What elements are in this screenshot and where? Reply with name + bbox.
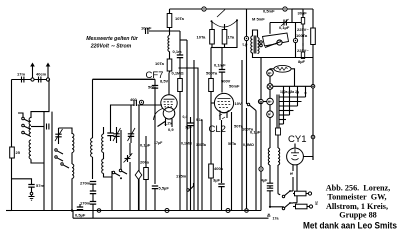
svg-text:4µF: 4µF: [261, 179, 268, 183]
lamp oval: [274, 65, 291, 72]
wire x92 drop: [92, 79, 94, 138]
svg-text:M 5mF: M 5mF: [252, 17, 265, 22]
label 9,1a texture: [196, 118, 203, 122]
dropper rung 1: [279, 96, 306, 98]
switch mains 2: [282, 202, 291, 210]
label row 50Ta: [228, 142, 237, 146]
label 10V: [235, 101, 242, 106]
capacitor C bf: [107, 127, 113, 141]
wire CY1 cathode down: [292, 165, 294, 191]
resistor R-ant 25: [10, 147, 21, 158]
svg-text:57m: 57m: [36, 183, 44, 188]
svg-text:10Ta: 10Ta: [155, 61, 165, 66]
plug prong 1: [308, 192, 311, 195]
wire x198 vertical: [179, 68, 199, 211]
label 0,1mF: [214, 63, 226, 68]
svg-text:50m: 50m: [148, 85, 156, 90]
wire x187 vertical: [180, 40, 187, 211]
svg-text:0,1MΩ: 0,1MΩ: [181, 142, 192, 146]
switch mains 1: [282, 190, 291, 198]
svg-text:10Ta: 10Ta: [175, 16, 185, 21]
capacitor C 30uF: [292, 9, 305, 28]
wire CY1 anode right: [303, 157, 313, 161]
wire x211 to bus: [210, 178, 212, 211]
node meas top1: [202, 7, 206, 11]
wire x261 lower: [260, 102, 262, 168]
wire main bus left end: [6, 210, 12, 212]
resistor R anode CF7: [178, 79, 183, 92]
svg-text:200a: 200a: [140, 160, 150, 165]
svg-text:10V: 10V: [235, 101, 242, 106]
switch selector arcs: [211, 10, 239, 28]
resistor R 100Ta: [311, 28, 316, 58]
wire top bus: [170, 8, 314, 10]
tube heater circle Hb1: [267, 70, 274, 77]
capacitor C grid series: [130, 97, 137, 106]
wire CL2 cathode pins: [220, 112, 227, 120]
wire Hf chain: [269, 105, 271, 111]
svg-text:50Ta: 50Ta: [228, 142, 237, 146]
wire y57.5 horizontal: [261, 57, 313, 59]
coil L3: [91, 138, 93, 157]
wire selector bottom: [211, 21, 237, 48]
coil choke 2: [278, 148, 280, 195]
wire x180 from junction: [149, 31, 180, 55]
node antenna terminal 1: [31, 78, 34, 81]
wire cap to coil: [31, 126, 44, 128]
wire x194 vertical: [193, 60, 195, 211]
tube CF7 envelope: [161, 95, 177, 119]
transformer T1 secondary: [258, 38, 260, 54]
wire c-chain to rail2: [92, 204, 94, 218]
svg-text:0,9: 0,9: [168, 127, 174, 132]
wire CF7 anode pin: [168, 73, 170, 95]
svg-text:0,5MΩ: 0,5MΩ: [243, 143, 254, 147]
label 500V: [221, 79, 231, 84]
svg-text:0,1µF: 0,1µF: [140, 143, 151, 148]
wire x292 vertical: [291, 9, 293, 23]
svg-text:170m: 170m: [80, 201, 91, 206]
wire T1 bottom: [253, 53, 262, 58]
wire x261 drop: [260, 58, 262, 100]
variable capacitor C-tune: [124, 153, 133, 162]
label 8,5V: [160, 79, 169, 84]
wire antenna input horizontal: [12, 79, 50, 81]
wire coil L2 to bus: [71, 178, 73, 210]
wire T1 top: [253, 30, 258, 37]
wire Hb2 chain: [269, 89, 271, 98]
wire coil L2 mid: [71, 153, 73, 165]
wire lamp leads: [270, 69, 295, 86]
capacitor C 3uF: [213, 178, 225, 211]
tube CY1 internals: [291, 149, 299, 160]
node meas left of Hb2: [259, 99, 267, 103]
antenna symbol 2: [46, 63, 51, 78]
svg-text:100Ta: 100Ta: [296, 33, 308, 38]
capacitor C 5,5uF: [152, 186, 170, 211]
wire x180 to bus: [179, 92, 181, 211]
svg-text:CF7: CF7: [146, 70, 164, 81]
label 50mF: [229, 84, 240, 89]
antenna symbol 1: [30, 63, 35, 78]
wire x256 vertical: [255, 115, 257, 211]
wire x211 lower: [210, 92, 212, 165]
node meas grid: [139, 100, 143, 104]
coil L2 right column: [72, 134, 74, 153]
capacitor C 8uF: [298, 28, 306, 64]
label 0,4 texture: [183, 115, 188, 119]
label 30uF: [298, 11, 308, 16]
switch contact SA2: [22, 124, 30, 129]
capacitor C 7uF: [185, 117, 194, 211]
label row 17uF: [154, 141, 163, 145]
svg-text:220Volt ∼ Strom: 220Volt ∼ Strom: [90, 44, 132, 50]
svg-text:25: 25: [16, 150, 21, 155]
svg-text:Met dank aan Leo Smits: Met dank aan Leo Smits: [303, 221, 397, 232]
dropper rung 5: [279, 114, 290, 116]
wire bandfilter top: [111, 105, 135, 127]
wire Hf down to coil: [269, 118, 271, 149]
wire right top corner: [312, 9, 314, 28]
coil L4b: [102, 159, 112, 177]
capacitor C 0,1m: [173, 49, 184, 58]
svg-text:8µF: 8µF: [298, 59, 306, 64]
tube CL2 pin marks: [219, 114, 225, 119]
dropper tap arrows: [282, 91, 307, 93]
label 0,9V: [168, 127, 174, 132]
label CF7: [146, 70, 164, 81]
wire chain2: [169, 52, 171, 60]
svg-text:270m: 270m: [80, 181, 91, 186]
svg-text:9,1a: 9,1a: [196, 118, 203, 122]
svg-text:5,5µF: 5,5µF: [159, 186, 170, 191]
label 0,1MOhm: [172, 71, 185, 76]
wire mid vertical x44: [43, 112, 45, 211]
dropper rung 2: [279, 101, 302, 103]
svg-text:1,2V: 1,2V: [164, 121, 173, 126]
trimmer C-ant: [55, 128, 63, 144]
label 225V top: [297, 27, 309, 32]
node meas CL2r: [258, 99, 262, 103]
jack diamond: [135, 171, 142, 211]
svg-text:0,1µF: 0,1µF: [279, 25, 290, 30]
svg-text:7µF: 7µF: [185, 125, 193, 130]
tube heater circle Hf: [267, 111, 274, 118]
coil L4 IF: [102, 127, 104, 159]
svg-text:1Ta: 1Ta: [228, 35, 235, 40]
coil L-ant upper: [29, 118, 31, 137]
caption line 1: [326, 184, 390, 193]
wire x211 upper: [210, 48, 212, 79]
svg-text:300Ta: 300Ta: [196, 143, 207, 147]
svg-text:0,1µF: 0,1µF: [250, 130, 261, 135]
dropper bottom element: [276, 128, 281, 135]
svg-text:10mF: 10mF: [141, 26, 152, 31]
wire x202 vertical: [201, 120, 203, 211]
wire selector top links: [212, 21, 225, 29]
capacitor C 10mF: [146, 28, 148, 34]
wire x313 lower: [312, 88, 314, 160]
label taps: [280, 90, 299, 94]
wire x242 vertical: [241, 60, 243, 211]
wire CF7 grid pin: [161, 104, 162, 106]
coil choke 1: [268, 148, 270, 183]
capacitor antenna series 17m: [17, 72, 25, 83]
wire x313 upper mid: [312, 58, 314, 85]
dropper bar: [277, 95, 279, 129]
tube CL2 internals: [218, 99, 231, 114]
transformer T1 core: [254, 36, 256, 54]
capacitor C-ant coupling: [47, 124, 49, 130]
resistor R 10Ta top: [167, 9, 184, 28]
label row 0,5M: [243, 143, 254, 147]
resistor R 500Ta: [206, 71, 218, 92]
rail2 end ticks: [267, 214, 279, 220]
dropper rung 3: [279, 105, 298, 107]
label row 300Ta: [196, 143, 207, 147]
svg-text:Tonmeister GW,: Tonmeister GW,: [327, 192, 386, 201]
wire switch links: [290, 191, 293, 204]
wire y86 horizontal: [273, 85, 313, 87]
wire x246.5 vertical: [246, 9, 248, 104]
svg-text:Gruppe 88: Gruppe 88: [339, 211, 377, 220]
lamp cross symbol: [267, 84, 273, 90]
resistor R 200a: [144, 168, 149, 180]
label 100Ta right: [296, 33, 308, 38]
wire dropper to coil2: [277, 135, 279, 148]
tube CF7 internals: [164, 99, 175, 112]
capacitor C 57m to chassis: [28, 183, 44, 200]
resistor R 400a: [209, 164, 224, 178]
wire x131 mid: [130, 105, 132, 127]
wire Hb1 down: [269, 76, 271, 83]
wire left drop to bus: [11, 158, 13, 211]
switch contacts SB: [55, 149, 69, 168]
svg-text:Lp: Lp: [243, 42, 248, 47]
svg-text:30µF: 30µF: [298, 11, 308, 16]
label 200a: [140, 160, 150, 165]
wire x180 mid: [179, 58, 181, 79]
svg-text:3µF: 3µF: [213, 178, 221, 183]
switch contact SC2: [119, 169, 127, 174]
node bus open circle 4: [245, 209, 249, 213]
wire chain: [169, 28, 171, 36]
wire x246.5 low: [246, 108, 248, 211]
tube heater circle Hb2: [267, 98, 274, 105]
label 175m: [176, 174, 187, 179]
svg-text:50mF: 50mF: [229, 84, 240, 89]
dropper rung 7: [279, 123, 284, 125]
wire x112 to bus: [111, 177, 113, 211]
svg-text:175m: 175m: [176, 174, 187, 179]
wire y79 right segment: [93, 78, 156, 80]
wire mid vertical x52: [51, 112, 53, 211]
node junction x313 low: [311, 135, 315, 139]
capacitor C 4uF: [261, 179, 284, 208]
node bus open circle 2: [165, 209, 169, 213]
svg-text:Messwerte gelten für: Messwerte gelten für: [86, 36, 139, 42]
label 100Ta2: [242, 127, 254, 132]
svg-text:17µF: 17µF: [154, 141, 163, 145]
svg-text:10Ta: 10Ta: [197, 35, 207, 40]
switch contact SA1: [22, 117, 30, 122]
node meas Lp: [243, 36, 249, 46]
wire rail2: [73, 217, 269, 219]
capacitor C coupling CL2: [219, 48, 225, 93]
switch CL2 right: [247, 103, 256, 115]
label Hf cathode: [290, 170, 293, 176]
svg-text:17m: 17m: [17, 72, 25, 77]
label CY1: [288, 134, 306, 145]
wire x295 vertical: [295, 23, 297, 58]
resistor R plug 2: [293, 204, 310, 209]
svg-text:100a 65a 2a: 100a 65a 2a: [280, 90, 299, 94]
node meas 261 low: [259, 167, 263, 211]
wire x130 to bus: [129, 143, 131, 211]
capacitor C 0,5uF on bus: [75, 204, 86, 218]
svg-text:40cm: 40cm: [36, 72, 47, 77]
caption line 4: [339, 211, 377, 220]
wire switch feed: [18, 113, 23, 117]
label M 5mF: [252, 17, 265, 22]
svg-text:0,5mF: 0,5mF: [263, 9, 275, 14]
svg-text:0,1mF: 0,1mF: [214, 63, 226, 68]
resistor R 10Ta screen: [155, 59, 172, 71]
capacitor C 50m cathode: [148, 79, 158, 184]
wire CF7 grid cap curve: [154, 109, 163, 121]
wire speaker top: [269, 23, 271, 34]
svg-text:400: 400: [130, 97, 137, 102]
wire y22 horizontal: [270, 22, 303, 24]
label 50Ta: [234, 124, 244, 129]
label 1a plug: [315, 201, 319, 206]
pointer 1,2V: [158, 121, 173, 127]
tube CY1 envelope: [287, 148, 304, 165]
plug prong 2: [309, 205, 312, 208]
wire CY1 heater down: [293, 165, 297, 203]
label 0,1uF2: [250, 130, 261, 135]
svg-text:Abb. 256. Lorenz,: Abb. 256. Lorenz,: [326, 184, 390, 193]
wire coil bottom stub: [31, 159, 44, 163]
wire CY1 top: [294, 144, 296, 149]
trimmer C bf2: [128, 127, 136, 143]
speaker pointer: [265, 42, 281, 48]
node junction right mid: [311, 85, 315, 89]
switch contact SC1: [112, 171, 120, 176]
label row 0,1MO: [181, 142, 192, 146]
wire x221.5 to bus: [221, 120, 223, 183]
capacitor C 270m: [80, 181, 96, 186]
switch jack mid: [187, 183, 194, 191]
node bus open circle 1: [97, 209, 101, 213]
label 0,3Ta: [0, 0, 1, 1]
svg-text:0,1MΩ: 0,1MΩ: [172, 71, 185, 76]
label 10mF: [141, 26, 152, 31]
label 0,1uF-l: [140, 143, 151, 148]
svg-text:0,5µF: 0,5µF: [75, 213, 86, 218]
wire branch to C57m: [12, 179, 32, 184]
svg-text:CY1: CY1: [288, 134, 306, 145]
switch contact SA3: [22, 131, 30, 136]
svg-text:CL2: CL2: [209, 124, 226, 135]
wire grid wire y105: [111, 104, 161, 106]
wire x146 vertical: [145, 136, 147, 211]
resistor R plug 1: [293, 191, 309, 196]
caption line 2: [327, 192, 386, 201]
dropper rung 4: [279, 110, 294, 112]
speaker cone: [263, 33, 289, 46]
svg-text:17a: 17a: [273, 216, 280, 220]
label CL2: [209, 124, 226, 135]
speaker coil: [277, 40, 282, 45]
coil L choke: [168, 36, 170, 52]
credit line: [303, 221, 397, 232]
wire x231.5 vertical: [231, 112, 233, 211]
node bus open circle 3: [226, 209, 230, 213]
transformer T1 primary: [251, 36, 253, 53]
label 225V bottom: [297, 48, 309, 53]
node meas right: [293, 38, 297, 42]
wire c-chain 1: [92, 184, 94, 190]
note text line2: [90, 44, 132, 50]
tube CL2 envelope: [214, 93, 233, 112]
wire x121 vertical: [120, 130, 122, 179]
note text line1: [86, 36, 139, 42]
capacitor C mid: [90, 191, 96, 201]
coil L-ant lower: [29, 140, 31, 159]
svg-text:0,4: 0,4: [183, 115, 188, 119]
junction coil bus: [71, 209, 73, 211]
label 0,5mF: [263, 9, 275, 14]
node antenna terminal 2: [46, 78, 49, 81]
svg-text:500Ta: 500Ta: [206, 71, 218, 76]
caption line 3: [326, 202, 388, 211]
dropper rung 6: [279, 119, 286, 121]
capacitor antenna series 40cm: [36, 72, 47, 83]
node meas top2: [283, 7, 287, 11]
wire x139 vertical: [138, 105, 140, 211]
svg-text:400a: 400a: [214, 166, 224, 171]
wire x92 lower: [92, 157, 94, 179]
wire to anode: [169, 71, 171, 73]
dropper taps vertical: [284, 86, 306, 124]
wire coil L2 top: [59, 128, 73, 134]
wire rail2 left tie: [72, 211, 74, 219]
resistor R sel 10Ta: [197, 30, 215, 45]
wire main bus: [6, 210, 261, 212]
svg-text:0,1m: 0,1m: [173, 49, 183, 54]
wire coil box top: [31, 80, 49, 119]
wire CL2 grid left: [211, 102, 214, 104]
coil L2 lower: [72, 164, 74, 178]
trimmer C bf1: [113, 127, 121, 143]
resistor R sel 1Ta: [222, 30, 235, 45]
wire antenna left drop: [11, 80, 13, 148]
speaker link circles: [260, 41, 263, 47]
wire CF7 cathode pins: [166, 119, 173, 128]
wire grid feed corner: [93, 78, 156, 80]
capacitor C 0,1uF top: [279, 19, 290, 30]
capacitor C 170m: [80, 201, 96, 206]
